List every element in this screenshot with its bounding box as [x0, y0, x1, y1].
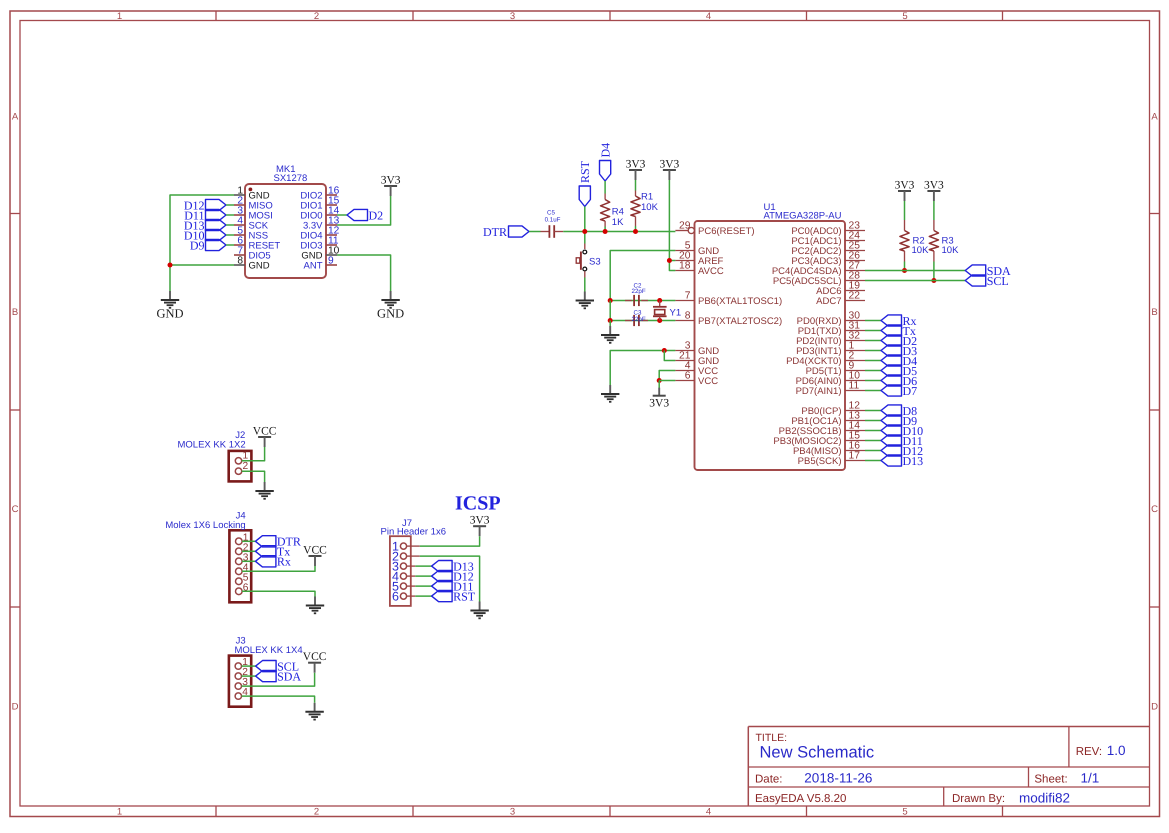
svg-text:Molex 1X6 Locking: Molex 1X6 Locking — [165, 520, 245, 531]
U1 pin names — [698, 226, 842, 467]
U1 pin numbers — [679, 221, 860, 462]
wire J7.1 to 3V3 — [420, 536, 480, 546]
MK1 pin numbers — [237, 185, 339, 266]
wire VCC down — [658, 381, 660, 389]
svg-text:3V3: 3V3 — [649, 398, 669, 410]
net flag D6 (U1 port) — [881, 374, 917, 388]
power 3V3 above MK1 — [381, 175, 401, 197]
wire RESET net horizontal — [563, 231, 675, 233]
svg-text:MOLEX KK 1X4: MOLEX KK 1X4 — [235, 645, 303, 656]
junction MK1 GND node — [168, 263, 173, 268]
svg-text:REV:: REV: — [1076, 746, 1102, 758]
J3 reference designator label — [236, 635, 246, 646]
junction R4/RESET — [603, 229, 608, 234]
net flag Rx (J4 pin 3) — [255, 555, 291, 569]
J3 pin circles — [235, 663, 241, 699]
wire J4.4 to VCC — [242, 566, 315, 571]
wire S3 to GND — [584, 278, 586, 292]
net flag D8 (U1 port) — [881, 404, 917, 418]
svg-text:Rx: Rx — [277, 555, 291, 569]
svg-text:A: A — [12, 112, 19, 123]
svg-text:3V3: 3V3 — [895, 180, 915, 192]
net flag D12 (U1 port) — [881, 444, 923, 458]
svg-text:Sheet:: Sheet: — [1034, 773, 1067, 785]
svg-text:ATMEGA328P-AU: ATMEGA328P-AU — [764, 211, 842, 222]
wire U1 pin3 GND — [610, 351, 675, 386]
svg-text:MOLEX KK 1X2: MOLEX KK 1X2 — [178, 440, 246, 451]
C3 value label 22pF — [632, 316, 646, 323]
ground below U1 GND pins — [601, 385, 619, 402]
svg-text:D9: D9 — [190, 238, 205, 252]
svg-text:1/1: 1/1 — [1081, 770, 1100, 785]
net flag D7 (U1 port) — [881, 384, 917, 398]
wire U1 to D11 — [865, 440, 881, 442]
junction RESET/RST — [582, 229, 587, 234]
net flag DTR (left) — [483, 225, 529, 239]
wire MK1.8 to GND — [170, 264, 234, 266]
svg-text:10K: 10K — [942, 245, 960, 256]
wire DTR to C5 — [529, 231, 541, 233]
svg-text:1.0: 1.0 — [1107, 743, 1126, 758]
svg-text:3V3: 3V3 — [626, 159, 646, 171]
svg-text:C: C — [12, 504, 19, 515]
wire J4.1 to DTR — [242, 540, 255, 542]
net flag D12 (J7 pin 4) — [432, 569, 474, 583]
svg-text:New Schematic: New Schematic — [760, 744, 875, 762]
wire D11 to MK1.3 — [226, 214, 234, 216]
svg-text:10K: 10K — [912, 245, 930, 256]
junction R3/SCL — [931, 278, 936, 283]
capacitor C5 — [541, 225, 564, 238]
svg-text:3V3: 3V3 — [659, 159, 679, 171]
C2 value label 22pF — [632, 288, 646, 295]
wire J7.5 to D11 — [415, 585, 431, 587]
net flag SDA (J3 pin 2) — [256, 669, 302, 683]
wire U1 to D9 — [865, 420, 881, 422]
wire 3V3 to MK1.13 — [337, 196, 391, 225]
wire MK1.14 to D2 — [337, 214, 347, 216]
svg-text:29: 29 — [679, 221, 691, 232]
net flag D9 (MK1 pin 6) — [190, 238, 226, 252]
wire U1 VCC pin4 — [659, 371, 675, 381]
junction VCC pins 4/6 — [657, 378, 662, 383]
svg-text:5: 5 — [902, 807, 907, 818]
wire J7.2 to GND — [420, 556, 480, 601]
pushbutton S3 — [576, 244, 586, 278]
svg-text:S3: S3 — [589, 256, 601, 267]
svg-text:1: 1 — [117, 807, 122, 818]
wire 3V3 to R3 — [933, 201, 935, 220]
J2 reference designator label — [235, 430, 245, 441]
MK1 value label SX1278 — [274, 173, 308, 184]
svg-text:9: 9 — [328, 255, 334, 266]
wire R1 to RESET net — [635, 226, 637, 232]
svg-text:B: B — [1151, 307, 1157, 318]
connector J3 body — [229, 656, 251, 707]
wire J7.3 to D13 — [415, 565, 431, 567]
wire U1 to D10 — [865, 430, 881, 432]
svg-text:GND: GND — [156, 307, 183, 321]
MK1 reference designator label — [276, 164, 296, 175]
svg-text:1: 1 — [117, 11, 122, 22]
svg-text:3: 3 — [510, 11, 515, 22]
J4 pin circles — [236, 538, 243, 595]
R4 value label 1K — [612, 217, 624, 228]
capacitor C2 — [625, 295, 648, 306]
svg-text:D2: D2 — [369, 208, 384, 222]
wire GND pin21 link — [664, 351, 675, 361]
wire MK1.10 to GND — [337, 255, 391, 291]
J7 reference designator label — [402, 518, 412, 529]
svg-text:18: 18 — [679, 261, 691, 272]
svg-text:C5: C5 — [547, 209, 555, 216]
svg-text:5: 5 — [902, 11, 907, 22]
ground below MK1 left — [156, 291, 183, 321]
svg-text:8: 8 — [685, 311, 691, 322]
svg-text:SCL: SCL — [987, 274, 1009, 288]
junction Y1 bottom/XTAL2 — [657, 318, 662, 323]
wire C3 column to GND — [609, 321, 611, 327]
J4 reference designator label — [236, 511, 246, 522]
svg-text:ANT: ANT — [304, 261, 323, 272]
wire D12 to MK1.2 — [226, 204, 234, 206]
wire VCC pin6 link — [659, 380, 675, 382]
svg-text:PB6(XTAL1TOSC1): PB6(XTAL1TOSC1) — [698, 296, 782, 307]
ground below crystal caps — [601, 326, 619, 343]
MK1 pin stubs — [234, 195, 337, 265]
svg-text:Y1: Y1 — [670, 308, 682, 319]
R4 reference label — [612, 207, 624, 218]
wire J2.1 to VCC — [242, 447, 265, 461]
svg-text:17: 17 — [849, 451, 861, 462]
U1 pin stubs — [675, 227, 865, 460]
net flag Tx (U1 port) — [881, 324, 916, 338]
svg-text:22pF: 22pF — [632, 316, 646, 323]
wire D13 to MK1.4 — [226, 224, 234, 226]
power 3V3 above R3 — [924, 180, 944, 202]
svg-text:SDA: SDA — [277, 669, 301, 683]
net flag RST (reset net) — [578, 160, 592, 206]
svg-text:D4: D4 — [598, 143, 612, 158]
net flag D10 (MK1 pin 5) — [184, 228, 226, 242]
wire MK1.1 to GND — [170, 195, 234, 291]
C5 value label 0.1uF — [545, 217, 561, 224]
wire J3.1 to SCL — [242, 665, 256, 667]
junction Y1 top/XTAL1 — [657, 298, 662, 303]
wire R2 to SDA — [904, 262, 906, 271]
svg-text:3: 3 — [510, 807, 515, 818]
net flag D12 (MK1 pin 2) — [184, 198, 226, 212]
junction GND pins 3/21 — [662, 348, 667, 353]
svg-text:B: B — [12, 307, 18, 318]
svg-text:3V3: 3V3 — [381, 175, 401, 187]
J2 value label MOLEX KK 1X2 — [178, 440, 246, 451]
wire J3.2 to SDA — [242, 675, 256, 677]
J3 pin numbers — [242, 657, 248, 698]
wire XTAL1 net — [610, 300, 675, 302]
net flag D5 (U1 port) — [881, 364, 917, 378]
wire R4 to RESET net — [604, 227, 606, 232]
svg-text:EasyEDA V5.8.20: EasyEDA V5.8.20 — [755, 793, 846, 805]
crystal Y1 — [653, 301, 667, 321]
net flag DTR (J4 pin 1) — [255, 535, 301, 549]
MK1 pin names — [249, 191, 324, 272]
svg-text:PB7(XTAL2TOSC2): PB7(XTAL2TOSC2) — [698, 316, 782, 327]
net flag SDA (U1 pin 27) — [965, 264, 1011, 278]
junction R1/RESET — [633, 229, 638, 234]
svg-text:ICSP: ICSP — [455, 493, 501, 515]
power 3V3 above U1 AVCC — [659, 159, 679, 181]
wire R3 to SCL — [933, 262, 935, 281]
wire U1 to D3 — [865, 350, 881, 352]
svg-text:R4: R4 — [612, 207, 624, 218]
wire RST flag to S3 — [584, 207, 586, 244]
wire U1 to D5 — [865, 370, 881, 372]
title block — [748, 727, 1149, 807]
svg-text:RST: RST — [578, 160, 592, 183]
resistor R1 — [631, 191, 640, 227]
svg-text:6: 6 — [685, 371, 691, 382]
title block texts — [755, 732, 1126, 806]
svg-text:TITLE:: TITLE: — [756, 732, 788, 744]
svg-text:VCC: VCC — [253, 426, 277, 438]
wire D9 to MK1.6 — [226, 244, 234, 246]
wire XTAL2 net — [610, 320, 675, 322]
connector J2 body — [229, 451, 252, 482]
svg-text:4: 4 — [706, 807, 711, 818]
power VCC above J2 — [253, 426, 277, 448]
Y1 reference label — [670, 308, 682, 319]
wire J2.2 to GND — [242, 471, 265, 482]
wire U1 to D12 — [865, 450, 881, 452]
svg-text:22: 22 — [849, 291, 861, 302]
net flag D13 (MK1 pin 4) — [184, 218, 226, 232]
IC U1 body — [695, 221, 846, 470]
net flag D4 (U1 port) — [881, 354, 917, 368]
net flag SCL (J3 pin 1) — [256, 659, 300, 673]
ground below S3 — [576, 292, 594, 309]
power 3V3 above R1 — [626, 159, 646, 181]
junction R2/SDA — [902, 268, 907, 273]
ground below J2 — [255, 482, 273, 499]
svg-text:D13: D13 — [903, 454, 924, 468]
svg-text:11: 11 — [849, 381, 860, 392]
svg-text:AVCC: AVCC — [698, 266, 724, 277]
net flag D13 (J7 pin 3) — [432, 559, 474, 573]
svg-text:modifi82: modifi82 — [1019, 791, 1070, 806]
svg-text:RST: RST — [453, 589, 476, 603]
svg-text:4: 4 — [706, 11, 711, 22]
wire 3V3 to AREF — [669, 260, 675, 262]
J7 pin numbers — [392, 540, 399, 604]
power 3V3 above R2 — [895, 180, 915, 202]
svg-text:GND: GND — [249, 261, 270, 272]
wire J4.3 to Rx — [242, 560, 255, 562]
wire SCL net — [865, 280, 965, 282]
power VCC above J3 drop — [303, 651, 327, 673]
R3 value label 10K — [942, 245, 960, 256]
wire U1 to D8 — [865, 410, 881, 412]
svg-text:R1: R1 — [641, 192, 653, 203]
power VCC right of J4 — [303, 545, 327, 567]
svg-text:6: 6 — [392, 590, 399, 604]
U1 value label ATMEGA328P-AU — [764, 211, 842, 222]
svg-text:PB5(SCK): PB5(SCK) — [798, 456, 842, 467]
power 3V3 below U1 VCC — [649, 388, 669, 410]
module MK1 SX1278 — [245, 184, 326, 278]
svg-text:PD7(AIN1): PD7(AIN1) — [796, 386, 842, 397]
wire J4.2 to Tx — [242, 550, 255, 552]
svg-text:VCC: VCC — [303, 545, 327, 557]
C5 reference label — [547, 209, 555, 216]
wire U1 GND pin5 down — [610, 251, 675, 301]
capacitor C3 — [625, 315, 648, 326]
R2 value label 10K — [912, 245, 930, 256]
power 3V3 above J7 drop — [470, 515, 490, 537]
resistor R4 — [601, 194, 610, 227]
J4 pin numbers — [243, 532, 249, 593]
J3 value label MOLEX KK 1X4 — [235, 645, 303, 656]
net flag D13 (U1 port) — [881, 454, 923, 468]
net flag D10 (U1 port) — [881, 424, 923, 438]
svg-text:D: D — [12, 702, 19, 713]
wire U1 to D2 — [865, 340, 881, 342]
svg-text:2: 2 — [314, 807, 319, 818]
U1 reference designator label — [764, 202, 776, 213]
R1 reference label — [641, 192, 653, 203]
resistor R3 — [929, 220, 938, 262]
C3 reference label — [634, 309, 642, 316]
wire J7.4 to D12 — [415, 575, 431, 577]
ground below ICSP — [470, 602, 488, 619]
wire SDA net — [865, 270, 965, 272]
net flag Rx (U1 port) — [881, 314, 917, 328]
svg-text:10K: 10K — [641, 202, 659, 213]
svg-text:A: A — [1151, 112, 1158, 123]
net flag D9 (U1 port) — [881, 414, 917, 428]
wire U1 to Tx — [865, 330, 881, 332]
wire D10 to MK1.5 — [226, 234, 234, 236]
wire J4.6 to GND — [242, 591, 315, 596]
svg-text:VCC: VCC — [698, 376, 718, 387]
wire D4 to R4 — [604, 181, 606, 194]
wire U1 to D6 — [865, 380, 881, 382]
J2 pin numbers — [243, 450, 249, 472]
svg-text:0.1uF: 0.1uF — [545, 217, 561, 224]
svg-text:SX1278: SX1278 — [274, 173, 308, 184]
svg-text:Drawn By:: Drawn By: — [952, 793, 1005, 805]
J4 value label Molex 1X6 Locking — [165, 520, 245, 531]
C2 reference label — [634, 283, 642, 290]
svg-text:Pin Header 1x6: Pin Header 1x6 — [381, 527, 446, 538]
net flag D2 (MK1 pin 14) — [347, 208, 383, 222]
svg-text:22pF: 22pF — [632, 288, 646, 295]
svg-text:3V3: 3V3 — [470, 515, 490, 527]
svg-text:DTR: DTR — [483, 225, 507, 239]
svg-text:Date:: Date: — [755, 773, 783, 785]
svg-text:D7: D7 — [903, 384, 918, 398]
wire U1 to D4 — [865, 360, 881, 362]
J7 pin stubs — [407, 546, 420, 596]
svg-text:GND: GND — [377, 307, 404, 321]
svg-text:2018-11-26: 2018-11-26 — [804, 770, 872, 785]
R2 reference label — [913, 236, 925, 247]
svg-text:1K: 1K — [612, 217, 624, 228]
svg-text:C: C — [1151, 504, 1158, 515]
J7 pin circles — [400, 543, 406, 599]
ICSP title label — [455, 493, 501, 515]
wire J3.4 to GND — [242, 696, 315, 703]
svg-text:3V3: 3V3 — [924, 180, 944, 192]
wire U1 to D13 — [865, 460, 881, 462]
svg-text:1: 1 — [243, 450, 249, 461]
junction AREF/AVCC — [667, 258, 672, 263]
wire 3V3 to R1 — [635, 180, 637, 191]
connector J4 body — [229, 530, 251, 602]
svg-text:PC6(RESET): PC6(RESET) — [698, 226, 754, 237]
net flag Tx (J4 pin 2) — [255, 545, 290, 559]
net flag D11 (J7 pin 5) — [432, 579, 474, 593]
connector J7 body — [390, 536, 411, 606]
junction C2/GND-col — [608, 298, 613, 303]
junction C3/GND-col — [608, 318, 613, 323]
svg-text:8: 8 — [237, 255, 243, 266]
resistor R2 — [900, 220, 909, 262]
net flag RST (J7 pin 6) — [432, 589, 476, 603]
wire J3.3 to VCC — [242, 673, 315, 686]
wire J7.6 to RST — [415, 595, 431, 597]
net flag SCL (U1 pin 28) — [965, 274, 1009, 288]
J2 pin circles — [235, 458, 241, 475]
wire U1 to D7 — [865, 390, 881, 392]
R3 reference label — [942, 236, 954, 247]
svg-text:VCC: VCC — [303, 651, 327, 663]
net flag D2 (U1 port) — [881, 334, 917, 348]
ground right of MK1 — [377, 291, 404, 321]
S3 reference label — [589, 256, 601, 267]
net flag D4 (vertical) — [598, 143, 612, 181]
ground below J3 — [305, 703, 323, 720]
R1 value label 10K — [641, 202, 659, 213]
svg-text:D: D — [1151, 702, 1158, 713]
wire 3V3 to AVCC — [669, 180, 675, 271]
wire GND column between C2 C3 — [609, 301, 611, 321]
net flag D3 (U1 port) — [881, 344, 917, 358]
J7 value label Pin Header 1x6 — [381, 527, 446, 538]
svg-text:7: 7 — [685, 291, 691, 302]
svg-text:2: 2 — [314, 11, 319, 22]
wire U1 to Rx — [865, 320, 881, 322]
wire 3V3 to R2 — [904, 201, 906, 220]
net flag D11 (U1 port) — [881, 434, 923, 448]
svg-text:ADC7: ADC7 — [816, 296, 841, 307]
ground below J4 VCC — [306, 597, 324, 614]
net flag D11 (MK1 pin 3) — [184, 208, 226, 222]
